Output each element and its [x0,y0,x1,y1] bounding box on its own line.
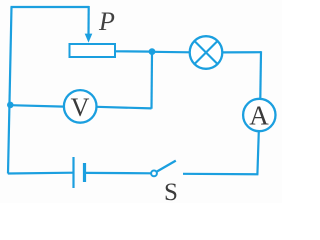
battery cell: short plate (negative) [83,163,86,182]
rheostat R (P) body [70,44,116,57]
svg-text:V: V [71,93,90,122]
wire: left vertical [8,7,12,174]
wire: junction to voltmeter [10,105,64,106]
wire: top horizontal to rheostat drop [11,6,90,8]
switch S contact [151,171,157,177]
wire: elbow up to junction [150,53,153,109]
svg-text:A: A [249,101,269,131]
battery cell: long plate (positive) [72,157,74,188]
svg-text:P: P [98,7,115,36]
ammeter A [243,99,275,131]
wire: right vertical down to ammeter [259,51,262,99]
wire: battery to bottom-left corner [8,172,74,175]
wire: bottom right horizontal to switch [183,173,258,176]
node junction (rheostat/lamp/voltmeter) [149,48,156,55]
lamp L1 [190,36,223,69]
wire: ammeter to bottom-right corner [257,131,258,174]
switch S lever [157,161,176,172]
wire: rheostat to junction [115,50,152,52]
wire: lamp to top-right corner [222,51,261,53]
wire: switch to battery [85,172,151,175]
svg-text:S: S [164,179,178,203]
wire: junction to lamp [152,51,190,54]
voltmeter V [64,90,97,123]
rheostat arrow head [85,34,93,43]
wire: drop to rheostat arrow [87,6,89,35]
node junction (left wire / voltmeter branch) [7,102,14,109]
wire: voltmeter to elbow [97,107,152,109]
